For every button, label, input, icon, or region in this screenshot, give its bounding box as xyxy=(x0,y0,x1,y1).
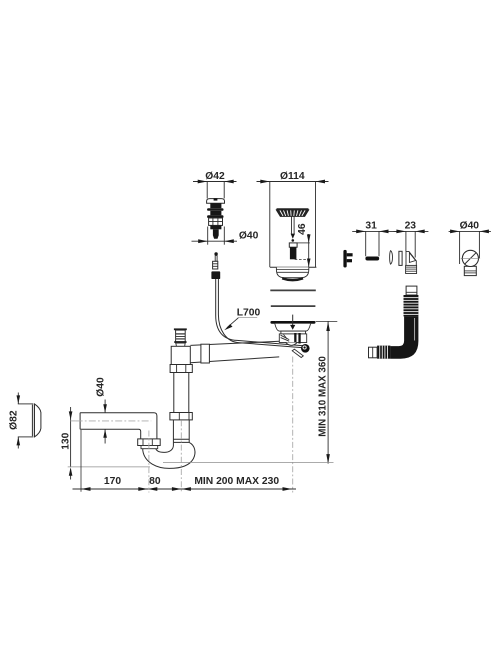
svg-text:Ø82: Ø82 xyxy=(8,410,19,430)
svg-text:31: 31 xyxy=(365,221,377,232)
svg-text:MIN 310 MAX 360: MIN 310 MAX 360 xyxy=(318,356,329,437)
svg-text:80: 80 xyxy=(149,476,161,487)
svg-text:MIN 200 MAX 230: MIN 200 MAX 230 xyxy=(194,476,279,487)
svg-text:130: 130 xyxy=(61,432,72,449)
svg-text:23: 23 xyxy=(405,221,417,232)
svg-text:L700: L700 xyxy=(237,307,261,318)
svg-text:Ø40: Ø40 xyxy=(95,377,106,397)
svg-text:Ø40: Ø40 xyxy=(239,231,259,242)
svg-text:Ø42: Ø42 xyxy=(205,171,225,182)
svg-text:Ø114: Ø114 xyxy=(280,171,305,182)
svg-text:Ø40: Ø40 xyxy=(460,221,480,232)
svg-text:46: 46 xyxy=(297,223,308,235)
svg-text:170: 170 xyxy=(104,476,121,487)
